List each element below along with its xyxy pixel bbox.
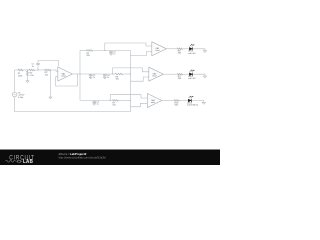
svg-text:ideal: ideal — [155, 50, 160, 52]
svg-text:1 kHz: 1 kHz — [18, 97, 23, 99]
svg-text:LAB: LAB — [23, 159, 33, 165]
svg-text:ideal: ideal — [151, 102, 156, 104]
svg-text:1u: 1u — [113, 53, 115, 55]
svg-text:red (633nm): red (633nm) — [187, 104, 199, 107]
svg-text:1u: 1u — [93, 77, 95, 79]
svg-text:ideal: ideal — [152, 76, 157, 78]
svg-text:1u: 1u — [97, 103, 99, 105]
svg-text:red LED: red LED — [188, 52, 196, 55]
svg-text:http://www.circuitlab.com/circ: http://www.circuitlab.com/circuit/52a2b/ — [59, 156, 107, 160]
svg-text:Effects / LabProject2: Effects / LabProject2 — [59, 152, 87, 156]
svg-text:ideal: ideal — [61, 75, 66, 77]
svg-text:red LED: red LED — [188, 77, 196, 80]
svg-text:1u: 1u — [107, 77, 109, 79]
